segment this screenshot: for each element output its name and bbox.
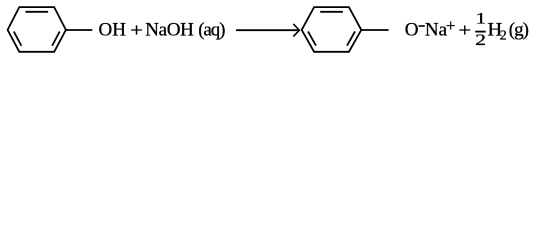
svg-text:+: + bbox=[130, 20, 143, 41]
svg-text:O: O bbox=[405, 19, 419, 40]
svg-text:2: 2 bbox=[500, 28, 507, 43]
svg-text:(aq): (aq) bbox=[198, 19, 225, 40]
svg-text:NaOH: NaOH bbox=[145, 19, 194, 40]
svg-text:+: + bbox=[458, 20, 471, 41]
svg-text:OH: OH bbox=[99, 19, 127, 40]
svg-text:Na: Na bbox=[425, 19, 448, 40]
svg-text:(g): (g) bbox=[509, 19, 529, 40]
svg-text:1: 1 bbox=[476, 11, 486, 28]
svg-text:2: 2 bbox=[475, 32, 486, 49]
svg-text:+: + bbox=[446, 16, 456, 35]
